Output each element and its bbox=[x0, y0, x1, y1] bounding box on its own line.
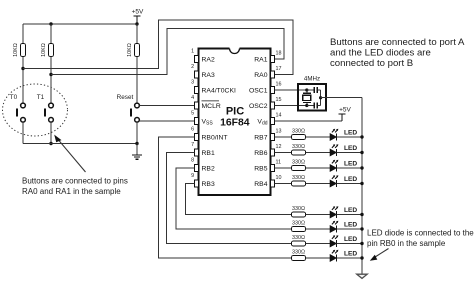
resistor 330 ohm for RB5 LED bbox=[292, 159, 306, 170]
svg-text:RB5: RB5 bbox=[254, 165, 267, 172]
note: LED to RB0 text bbox=[367, 229, 474, 249]
junction node RA0 tap on T0 column bbox=[21, 67, 24, 70]
wire pin 13 RB7 to resistor bbox=[275, 136, 292, 138]
pin 16 OSC1 (right) bbox=[249, 81, 282, 94]
wire T1 column upper bbox=[50, 24, 52, 44]
svg-text:16: 16 bbox=[276, 81, 282, 87]
pin 17 RA0 (right) bbox=[254, 66, 281, 79]
pin 7 RB1 (left) bbox=[191, 142, 215, 157]
pin 8 RB2 (left) bbox=[191, 158, 215, 173]
wire pin 10 RB4 to resistor bbox=[275, 183, 292, 185]
svg-text:Buttons are connected to pins: Buttons are connected to pins bbox=[22, 177, 128, 186]
svg-text:+5V: +5V bbox=[132, 9, 144, 16]
svg-text:RA0 and RA1 in the sample: RA0 and RA1 in the sample bbox=[22, 187, 121, 196]
svg-text:OSC2: OSC2 bbox=[249, 103, 268, 110]
svg-text:RA3: RA3 bbox=[202, 72, 215, 79]
wire LED RB7 cathode to bus bbox=[337, 136, 363, 138]
pin 14 Vdd (right) bbox=[257, 112, 281, 126]
junction top rail / +5V / reset column bbox=[135, 22, 138, 25]
svg-text:11: 11 bbox=[276, 159, 282, 165]
wire +5V top rail bbox=[23, 23, 137, 25]
svg-text:330Ω: 330Ω bbox=[292, 206, 305, 212]
LED D3 on RB2 bbox=[330, 221, 338, 233]
svg-text:Vdd: Vdd bbox=[257, 118, 267, 126]
wire reset column to button bbox=[136, 57, 138, 104]
resistor 10K pull-up for T1 bbox=[41, 43, 54, 57]
wire LED cathode ground bus bbox=[361, 98, 363, 274]
wire T0 node to pin 17 RA0 bbox=[23, 20, 293, 75]
svg-text:RB0/INT: RB0/INT bbox=[202, 134, 228, 141]
wire LED RB2 cathode to bus bbox=[337, 228, 363, 230]
pin 4 MCLR (left) bbox=[191, 95, 221, 110]
svg-text:9: 9 bbox=[191, 173, 194, 179]
svg-text:RB3: RB3 bbox=[202, 181, 215, 188]
crystal X1 bbox=[300, 90, 311, 106]
svg-text:MCLR: MCLR bbox=[202, 103, 221, 110]
svg-text:16F84: 16F84 bbox=[220, 118, 250, 129]
svg-text:14: 14 bbox=[276, 112, 282, 118]
wire oscillator block to ground bus bbox=[321, 97, 362, 99]
wire LED RB4 cathode to bus bbox=[337, 183, 363, 185]
LED D7 on RB6 bbox=[330, 144, 338, 156]
svg-text:10KΩ: 10KΩ bbox=[13, 43, 19, 57]
junction bus / RB5 row bbox=[360, 166, 363, 169]
LED D5 on RB4 bbox=[330, 175, 338, 187]
push-button T0 bbox=[16, 103, 26, 122]
junction bus / RB2 row bbox=[360, 227, 363, 230]
wire reset button to ground junction bbox=[136, 122, 138, 143]
pin 2 RA3 (left) bbox=[191, 64, 215, 79]
svg-text:pin RB0 in the sample: pin RB0 in the sample bbox=[367, 239, 446, 248]
pin 11 RB5 (right) bbox=[254, 159, 281, 172]
push-button T1 bbox=[44, 103, 54, 122]
resistor 330 ohm for RB3 LED bbox=[292, 206, 306, 217]
wire reset column upper bbox=[136, 24, 138, 44]
svg-text:10KΩ: 10KΩ bbox=[41, 43, 47, 57]
wire caps common bbox=[320, 90, 322, 106]
junction ground node bbox=[135, 142, 138, 145]
svg-text:LED: LED bbox=[344, 207, 357, 214]
svg-text:LED: LED bbox=[344, 221, 357, 228]
power +5V (top) bbox=[132, 9, 144, 25]
capacitor C2 (bottom) bbox=[307, 102, 321, 108]
svg-text:10KΩ: 10KΩ bbox=[127, 43, 133, 57]
junction bus / RB6 row bbox=[360, 151, 363, 154]
svg-text:LED: LED bbox=[344, 176, 357, 183]
svg-text:330Ω: 330Ω bbox=[292, 144, 305, 150]
LED D1 on RB0 bbox=[330, 250, 338, 262]
svg-text:15: 15 bbox=[276, 97, 282, 103]
resistor 10K pull-up for Reset bbox=[127, 43, 140, 57]
pin 6 RB0/INT (left) bbox=[191, 127, 227, 142]
svg-text:7: 7 bbox=[191, 142, 194, 148]
wire pin 8 RB2 wrap-around to resistor bbox=[176, 168, 292, 229]
wire resistor to LED RB2 bbox=[306, 228, 331, 230]
capacitor C1 (top) bbox=[307, 87, 321, 93]
pin 5 Vss (left) bbox=[191, 111, 213, 127]
svg-text:PIC: PIC bbox=[226, 106, 244, 118]
svg-text:and the LED diodes are: and the LED diodes are bbox=[330, 47, 431, 58]
resistor 330 ohm for RB6 LED bbox=[292, 144, 306, 155]
wire LED RB0 cathode to bus bbox=[337, 257, 363, 259]
resistor 10K pull-up for T0 bbox=[13, 43, 26, 57]
svg-text:330Ω: 330Ω bbox=[292, 159, 305, 165]
annotation arrow to RB0 LED bbox=[370, 249, 389, 261]
svg-text:RA1: RA1 bbox=[254, 56, 267, 63]
wire pin 6 RB0 wrap-around to resistor bbox=[159, 137, 292, 258]
wire reset top to pin 4 MCLR bbox=[139, 105, 194, 107]
wire T0 column to button bbox=[22, 57, 24, 104]
LED D8 on RB7 bbox=[330, 129, 338, 141]
svg-text:1: 1 bbox=[191, 49, 194, 55]
wire ground rail under buttons bbox=[23, 143, 137, 145]
svg-text:VSS: VSS bbox=[202, 118, 214, 126]
svg-text:12: 12 bbox=[276, 144, 282, 150]
junction node RA1 tap on T1 column bbox=[49, 73, 52, 76]
svg-text:OSC1: OSC1 bbox=[249, 87, 268, 94]
resistor 330 ohm for RB7 LED bbox=[292, 128, 306, 139]
wire reset bottom to pin 5 Vss bbox=[139, 120, 194, 122]
wire LED RB6 cathode to bus bbox=[337, 152, 363, 154]
wire T1 node to pin 18 RA1 bbox=[51, 29, 284, 75]
wire pin 7 RB1 wrap-around to resistor bbox=[167, 153, 292, 244]
resistor 330 ohm for RB0 LED bbox=[292, 249, 306, 260]
svg-text:LED: LED bbox=[344, 250, 357, 257]
junction bus / RB3 row bbox=[360, 213, 363, 216]
junction top rail / T1 column bbox=[49, 22, 52, 25]
pin 12 RB6 (right) bbox=[254, 144, 281, 157]
wire resistor to LED RB7 bbox=[306, 136, 331, 138]
pin 18 RA1 (right) bbox=[254, 50, 281, 63]
svg-text:T1: T1 bbox=[37, 94, 45, 101]
svg-text:LED diode is connected to the: LED diode is connected to the bbox=[367, 229, 474, 238]
svg-text:LED: LED bbox=[344, 145, 357, 152]
oscillator block 4MHz bbox=[298, 76, 326, 111]
junction T1 / ground rail bbox=[49, 142, 52, 145]
wire LED RB5 cathode to bus bbox=[337, 167, 363, 169]
wire T0 column upper bbox=[22, 24, 24, 44]
wire LED RB1 cathode to bus bbox=[337, 243, 363, 245]
svg-text:Reset: Reset bbox=[117, 94, 134, 101]
IC U1 PIC 16F84 body bbox=[199, 48, 271, 196]
pin 3 RA4/T0CKI (left) bbox=[191, 80, 236, 95]
svg-text:LED: LED bbox=[344, 236, 357, 243]
wire LED RB3 cathode to bus bbox=[337, 214, 363, 216]
svg-text:RB4: RB4 bbox=[254, 181, 267, 188]
wire T1 column to button bbox=[50, 57, 52, 104]
wire resistor to LED RB4 bbox=[306, 183, 331, 185]
wire pin 16 OSC1 to crystal block bbox=[275, 89, 300, 91]
junction bus / RB0 row bbox=[360, 256, 363, 259]
svg-text:LED: LED bbox=[344, 129, 357, 136]
LED D6 on RB5 bbox=[330, 160, 338, 172]
LED D4 on RB3 bbox=[330, 206, 338, 218]
junction bus / RB4 row bbox=[360, 182, 363, 185]
svg-text:4: 4 bbox=[191, 95, 194, 101]
svg-text:RB7: RB7 bbox=[254, 134, 267, 141]
ground (earth) symbol at reset bbox=[132, 144, 142, 160]
svg-text:+5V: +5V bbox=[339, 107, 351, 114]
junction crystal bottom node bbox=[305, 104, 308, 107]
svg-text:330Ω: 330Ω bbox=[292, 128, 305, 134]
svg-text:LED: LED bbox=[344, 160, 357, 167]
svg-text:330Ω: 330Ω bbox=[292, 220, 305, 226]
note: buttons to RA0/RA1 text bbox=[22, 177, 128, 197]
svg-text:6: 6 bbox=[191, 127, 194, 133]
resistor 330 ohm for RB1 LED bbox=[292, 235, 306, 246]
wire pin 12 RB6 to resistor bbox=[275, 152, 292, 154]
svg-text:RB6: RB6 bbox=[254, 150, 267, 157]
wire resistor to LED RB3 bbox=[306, 214, 331, 216]
pin 1 RA2 (left) bbox=[191, 49, 215, 64]
svg-text:RA2: RA2 bbox=[202, 56, 215, 63]
svg-text:8: 8 bbox=[191, 158, 194, 164]
svg-text:13: 13 bbox=[276, 128, 282, 134]
wire pin 15 OSC2 to crystal block bbox=[275, 105, 300, 107]
wire resistor to LED RB6 bbox=[306, 152, 331, 154]
svg-text:T0: T0 bbox=[10, 94, 18, 101]
wire pin 9 RB3 wrap-around to resistor bbox=[186, 184, 292, 215]
svg-text:330Ω: 330Ω bbox=[292, 175, 305, 181]
note: buttons to port A text bbox=[330, 37, 465, 69]
pin 15 OSC2 (right) bbox=[249, 97, 282, 110]
svg-text:RA0: RA0 bbox=[254, 72, 267, 79]
svg-text:10: 10 bbox=[276, 175, 282, 181]
svg-text:5: 5 bbox=[191, 111, 194, 117]
pin 9 RB3 (left) bbox=[191, 173, 215, 188]
wire pin 14 Vdd to +5V bbox=[275, 120, 342, 122]
wire resistor to LED RB0 bbox=[306, 257, 331, 259]
annotation arrow to buttons ellipse bbox=[54, 135, 85, 172]
resistor 330 ohm for RB2 LED bbox=[292, 220, 306, 231]
svg-text:Buttons are connected to port: Buttons are connected to port A bbox=[330, 37, 465, 48]
svg-text:3: 3 bbox=[191, 80, 194, 86]
svg-text:RA4/T0CKI: RA4/T0CKI bbox=[202, 87, 236, 94]
LED D2 on RB1 bbox=[330, 235, 338, 247]
annotation ellipse around buttons T0/T1 bbox=[3, 84, 68, 136]
svg-text:RB2: RB2 bbox=[202, 165, 215, 172]
wire T1 button to ground rail bbox=[50, 122, 52, 143]
junction caps common / ground feed bbox=[319, 96, 322, 99]
svg-text:2: 2 bbox=[191, 64, 194, 70]
junction crystal top node bbox=[305, 88, 308, 91]
svg-text:RB1: RB1 bbox=[202, 150, 215, 157]
svg-text:330Ω: 330Ω bbox=[292, 235, 305, 241]
junction bus / RB1 row bbox=[360, 242, 363, 245]
svg-text:330Ω: 330Ω bbox=[292, 249, 305, 255]
wire resistor to LED RB5 bbox=[306, 167, 331, 169]
power +5V (right) bbox=[339, 107, 352, 122]
pin 13 RB7 (right) bbox=[254, 128, 281, 141]
resistor 330 ohm for RB4 LED bbox=[292, 175, 306, 186]
ground arrow symbol at bus bottom bbox=[357, 274, 367, 278]
push-button Reset bbox=[130, 103, 140, 122]
wire T0 button to ground rail bbox=[22, 122, 24, 143]
svg-text:18: 18 bbox=[276, 50, 282, 56]
svg-text:4MHz: 4MHz bbox=[304, 76, 320, 83]
pin 10 RB4 (right) bbox=[254, 175, 281, 188]
svg-text:17: 17 bbox=[276, 66, 282, 72]
wire resistor to LED RB1 bbox=[306, 243, 331, 245]
junction bus / RB7 row bbox=[360, 135, 363, 138]
svg-text:connected to port B: connected to port B bbox=[330, 58, 413, 69]
wire pin 11 RB5 to resistor bbox=[275, 167, 292, 169]
